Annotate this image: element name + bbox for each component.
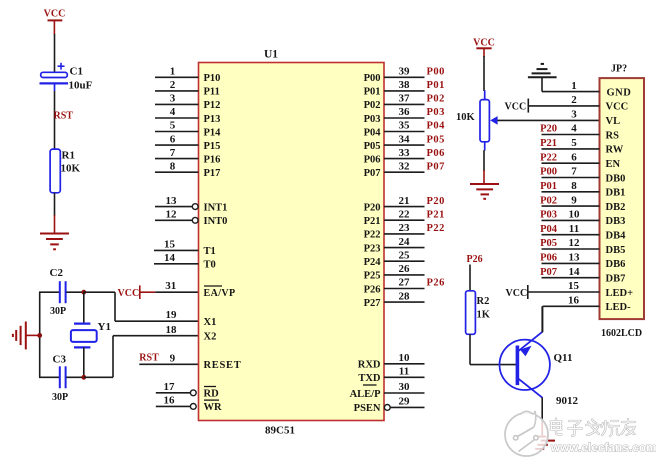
svg-text:EN: EN <box>606 159 621 170</box>
LCD pin 11 (DB4) with net label P04 <box>540 223 626 242</box>
LCD pin 13 (DB6) with net label P06 <box>540 252 625 271</box>
svg-text:89C51: 89C51 <box>265 425 295 437</box>
junction node XTAL2 <box>81 375 86 380</box>
svg-text:P26: P26 <box>467 254 483 265</box>
svg-text:Y1: Y1 <box>98 321 111 333</box>
svg-text:30P: 30P <box>52 392 68 403</box>
svg-text:10K: 10K <box>61 163 81 175</box>
svg-text:P07: P07 <box>427 161 445 172</box>
svg-text:X2: X2 <box>204 332 217 343</box>
U1 pin 31 (EA/VP) number and name <box>165 280 235 299</box>
watermark chinese text <box>551 419 636 437</box>
watermark logo circle <box>505 411 548 456</box>
LCD pin 16 (LED-) <box>543 295 631 314</box>
svg-text:P20: P20 <box>427 196 445 207</box>
wire Q11 collector to ground <box>541 397 543 436</box>
wire RST to U1 pin 9 <box>139 363 198 365</box>
svg-text:DB5: DB5 <box>606 245 626 256</box>
wire pot wiper to LCD pin 3 VL <box>497 119 599 121</box>
svg-text:4: 4 <box>571 123 577 135</box>
IC U1 89C51 body <box>199 49 385 437</box>
svg-text:P11: P11 <box>204 87 220 98</box>
U1 pin 36 (P03) with net label P03 <box>364 106 445 125</box>
svg-text:5: 5 <box>170 120 176 132</box>
svg-text:VL: VL <box>606 116 621 127</box>
svg-text:RD: RD <box>204 389 220 400</box>
svg-text:VCC: VCC <box>44 9 66 20</box>
power symbol VCC (contrast pot) <box>473 38 495 58</box>
svg-text:1: 1 <box>571 80 577 92</box>
svg-text:5: 5 <box>571 137 577 149</box>
junction node XTAL1 <box>81 290 86 295</box>
svg-text:30P: 30P <box>50 306 66 317</box>
LCD pin 10 (DB3) with net label P03 <box>540 209 625 228</box>
svg-text:ALE/P: ALE/P <box>350 389 382 400</box>
svg-text:11: 11 <box>569 223 579 235</box>
U1 pin 19 (X1) number and name <box>166 309 217 328</box>
svg-text:14: 14 <box>164 252 176 264</box>
svg-text:DB1: DB1 <box>606 188 626 199</box>
svg-text:P10: P10 <box>204 73 221 84</box>
svg-text:P06: P06 <box>364 154 381 165</box>
svg-text:10: 10 <box>569 209 581 221</box>
U1 pin 22 (P21) with net label P21 <box>364 208 445 227</box>
U1 pin 13 (INT1) with inverting bubble <box>155 195 227 214</box>
U1 pin 32 (P07) with net label P07 <box>364 160 445 179</box>
svg-text:VCC: VCC <box>473 38 495 49</box>
svg-text:P04: P04 <box>540 224 558 235</box>
wire left rail (C2/C3 ground side) <box>39 292 41 377</box>
svg-text:14: 14 <box>569 266 581 278</box>
U1 pin 1 (P10) <box>155 66 220 85</box>
svg-text:DB2: DB2 <box>606 202 626 213</box>
svg-text:P07: P07 <box>540 267 557 278</box>
LCD pin 14 (DB7) with net label P07 <box>540 266 625 285</box>
LCD pin 8 (DB1) with net label P01 <box>540 180 625 199</box>
svg-text:P17: P17 <box>204 168 221 179</box>
U1 pin 27 (P26) with net label P26 <box>364 277 445 296</box>
svg-text:30: 30 <box>399 381 411 393</box>
svg-text:4: 4 <box>170 106 176 118</box>
U1 pin 26 (P25) <box>364 263 425 282</box>
U1 pin 37 (P02) with net label P02 <box>364 93 445 112</box>
net label VCC at U1 pin 31 (EA/VP) <box>118 285 156 299</box>
wire VCC label to U1 pin 31 <box>155 291 198 293</box>
resistor R1 10K <box>50 149 80 193</box>
svg-text:DB6: DB6 <box>606 259 626 270</box>
svg-text:P01: P01 <box>427 80 445 91</box>
svg-text:P12: P12 <box>204 100 221 111</box>
svg-text:9012: 9012 <box>556 395 579 407</box>
svg-text:P21: P21 <box>364 216 381 227</box>
svg-text:X1: X1 <box>204 317 217 328</box>
svg-text:P02: P02 <box>364 100 381 111</box>
svg-text:26: 26 <box>399 263 411 275</box>
svg-text:RXD: RXD <box>358 360 381 371</box>
svg-text:LED-: LED- <box>606 302 632 313</box>
svg-text:DB0: DB0 <box>606 173 626 184</box>
svg-text:34: 34 <box>399 133 411 145</box>
svg-text:RS: RS <box>606 130 620 141</box>
svg-text:3: 3 <box>170 93 176 105</box>
wire Q11 emitter up to LED- net <box>541 306 543 332</box>
svg-text:3: 3 <box>571 108 577 120</box>
transistor Q11 9012 (PNP) <box>500 332 579 407</box>
svg-text:T1: T1 <box>204 246 216 257</box>
svg-text:17: 17 <box>164 381 176 393</box>
svg-text:35: 35 <box>399 120 411 132</box>
svg-text:P24: P24 <box>364 257 382 268</box>
resistor R2 1K <box>466 291 491 335</box>
svg-text:8: 8 <box>170 160 176 172</box>
svg-text:P21: P21 <box>540 138 557 149</box>
U1 pin 3 (P12) <box>155 93 220 112</box>
svg-text:10: 10 <box>399 352 411 364</box>
svg-text:P02: P02 <box>540 195 557 206</box>
crystal Y1 <box>71 292 111 377</box>
ground (earth) at LCD pin 1 <box>528 64 557 92</box>
U1 pin 16 (WR) with inverting bubble <box>156 395 222 414</box>
svg-text:P05: P05 <box>364 141 381 152</box>
svg-text:VCC: VCC <box>606 102 629 113</box>
U1 pin 7 (P16) <box>155 147 220 166</box>
svg-text:RST: RST <box>139 353 159 364</box>
svg-text:27: 27 <box>399 277 411 289</box>
svg-text:INT1: INT1 <box>204 202 228 213</box>
U1 pin 6 (P15) <box>155 133 220 152</box>
svg-text:DB3: DB3 <box>606 216 626 227</box>
svg-text:P23: P23 <box>364 243 381 254</box>
svg-text:PSEN: PSEN <box>354 403 381 414</box>
svg-text:32: 32 <box>399 160 411 172</box>
svg-text:6: 6 <box>170 133 176 145</box>
svg-text:19: 19 <box>166 309 178 321</box>
svg-text:P00: P00 <box>364 73 381 84</box>
svg-text:15: 15 <box>164 239 176 251</box>
svg-text:RST: RST <box>54 110 74 121</box>
wire XTAL2 to U1 pin 18 (X2) <box>84 336 199 378</box>
U1 pin 25 (P24) <box>364 249 425 268</box>
svg-text:16: 16 <box>568 295 580 307</box>
svg-text:31: 31 <box>165 280 176 292</box>
U1 pin 17 (RD) with inverting bubble <box>156 381 219 400</box>
svg-text:P14: P14 <box>204 127 222 138</box>
net label VCC at LCD pin 2 (black) <box>505 99 529 113</box>
U1 pin 5 (P14) <box>155 120 221 139</box>
net label VCC at LCD pin 15 (black) <box>506 285 528 299</box>
LCD pin 6 (EN) with net label P22 <box>540 151 620 170</box>
svg-text:C1: C1 <box>70 66 83 78</box>
U1 pin 12 (INT0) with inverting bubble <box>155 209 227 228</box>
svg-text:6: 6 <box>571 151 577 163</box>
svg-text:28: 28 <box>399 290 411 302</box>
svg-text:WR: WR <box>204 402 223 413</box>
U1 pin 9 (RESET) number and name <box>170 353 242 372</box>
LCD pin 7 (DB0) with net label P00 <box>540 166 625 185</box>
LCD pin 3 (VL) <box>571 108 620 127</box>
svg-text:P26: P26 <box>364 284 381 295</box>
svg-text:7: 7 <box>170 147 176 159</box>
svg-text:R2: R2 <box>477 296 490 307</box>
svg-text:VCC: VCC <box>505 102 527 113</box>
LCD pin 1 (GND) <box>542 80 631 99</box>
U1 pin 29 (PSEN) with inverting bubble <box>354 396 425 415</box>
svg-text:P04: P04 <box>364 127 382 138</box>
svg-text:DB4: DB4 <box>606 231 627 242</box>
U1 pin 14 (T0) <box>154 252 216 271</box>
svg-text:29: 29 <box>399 396 411 408</box>
junction node crystal ground tap <box>37 333 42 338</box>
svg-text:12: 12 <box>166 209 178 221</box>
U1 pin 24 (P23) <box>364 236 425 255</box>
svg-text:P13: P13 <box>204 114 221 125</box>
ground (earth) below pot <box>470 184 499 199</box>
U1 pin 34 (P05) with net label P05 <box>364 133 445 152</box>
svg-text:VCC: VCC <box>506 288 528 299</box>
svg-text:P01: P01 <box>540 181 557 192</box>
svg-text:R1: R1 <box>62 150 75 162</box>
capacitor C3 30P <box>39 354 84 404</box>
U1 pin 2 (P11) <box>155 79 220 98</box>
ground (earth) reset circuit <box>40 234 69 250</box>
wire VCC to C1 <box>54 34 56 73</box>
svg-text:39: 39 <box>399 66 411 78</box>
svg-text:T0: T0 <box>204 260 216 271</box>
LCD pin 9 (DB2) with net label P02 <box>540 194 625 213</box>
svg-text:GND: GND <box>607 87 632 98</box>
U1 pin 4 (P13) <box>155 106 220 125</box>
LCD pin 5 (RW) with net label P21 <box>540 137 624 156</box>
svg-text:P22: P22 <box>427 223 445 234</box>
svg-text:2: 2 <box>170 79 176 91</box>
svg-text:DB7: DB7 <box>606 274 626 285</box>
wire C1 to R1 <box>54 91 56 149</box>
wire P26 to R2 <box>469 265 471 292</box>
U1 pin 8 (P17) <box>155 160 220 179</box>
svg-text:7: 7 <box>571 166 577 178</box>
svg-text:24: 24 <box>399 236 411 248</box>
svg-text:www.elecfans.com: www.elecfans.com <box>550 443 656 455</box>
svg-text:37: 37 <box>399 93 411 105</box>
svg-text:RW: RW <box>606 145 624 156</box>
svg-text:P05: P05 <box>427 134 445 145</box>
svg-text:P25: P25 <box>364 271 381 282</box>
svg-text:15: 15 <box>568 280 580 292</box>
svg-text:INT0: INT0 <box>204 216 228 227</box>
svg-text:P15: P15 <box>204 141 221 152</box>
svg-text:25: 25 <box>399 249 411 261</box>
svg-text:1: 1 <box>170 66 176 78</box>
U1 pin 18 (X2) number and name <box>166 324 217 343</box>
svg-text:13: 13 <box>166 195 178 207</box>
wire pot to ground <box>483 150 485 184</box>
U1 pin 38 (P01) with net label P01 <box>364 79 445 98</box>
U1 pin 11 (TXD) <box>358 366 424 385</box>
svg-text:P03: P03 <box>427 107 445 118</box>
U1 pin 15 (T1) <box>154 239 216 258</box>
svg-text:10K: 10K <box>456 112 476 123</box>
svg-text:21: 21 <box>399 195 410 207</box>
wire XTAL1 to U1 pin 19 (X1) <box>84 292 199 321</box>
svg-text:P06: P06 <box>540 253 557 264</box>
svg-text:1602LCD: 1602LCD <box>601 328 642 339</box>
svg-text:P26: P26 <box>427 278 445 289</box>
svg-text:P07: P07 <box>364 168 381 179</box>
capacitor C2 30P <box>39 267 84 317</box>
svg-text:38: 38 <box>399 79 411 91</box>
svg-text:U1: U1 <box>264 49 278 61</box>
svg-text:P22: P22 <box>540 152 557 163</box>
svg-text:9: 9 <box>170 353 176 365</box>
U1 pin 35 (P04) with net label P04 <box>364 120 446 139</box>
svg-text:P03: P03 <box>540 210 557 221</box>
svg-text:12: 12 <box>569 237 581 249</box>
svg-text:P04: P04 <box>427 121 446 132</box>
LCD pin 4 (RS) with net label P20 <box>540 123 619 142</box>
wire R1 to ground <box>54 193 56 234</box>
svg-text:P00: P00 <box>540 167 557 178</box>
svg-text:P20: P20 <box>364 202 381 213</box>
svg-text:RESET: RESET <box>204 360 242 371</box>
svg-text:TXD: TXD <box>358 373 381 384</box>
U1 pin 30 (ALE/P) <box>350 381 425 400</box>
U1 pin 28 (P27) <box>364 290 425 309</box>
svg-text:P02: P02 <box>427 94 445 105</box>
svg-text:P27: P27 <box>364 298 381 309</box>
svg-text:EA/VP: EA/VP <box>204 288 236 299</box>
wire LCD pin 16 to Q11 emitter <box>542 306 544 332</box>
svg-text:2: 2 <box>571 94 577 106</box>
svg-text:18: 18 <box>166 324 178 336</box>
svg-text:11: 11 <box>399 366 409 378</box>
svg-text:10uF: 10uF <box>69 80 93 92</box>
svg-text:P20: P20 <box>540 124 557 135</box>
svg-text:P22: P22 <box>364 230 381 241</box>
svg-text:P00: P00 <box>427 67 445 78</box>
svg-text:9: 9 <box>571 194 577 206</box>
connector JP? 1602 LCD body <box>600 64 645 340</box>
svg-text:1K: 1K <box>477 310 491 321</box>
wire VCC to potentiometer <box>483 56 485 91</box>
svg-text:22: 22 <box>399 208 411 220</box>
svg-text:P16: P16 <box>204 154 221 165</box>
svg-text:C3: C3 <box>53 354 67 366</box>
power ground (crystal capacitors) <box>13 322 40 350</box>
svg-text:P21: P21 <box>427 209 445 220</box>
svg-text:P05: P05 <box>540 238 557 249</box>
LCD pin 2 (VCC) <box>528 94 628 113</box>
svg-text:C2: C2 <box>50 267 64 279</box>
svg-text:33: 33 <box>399 147 411 159</box>
capacitor C1 10uF (polarized) <box>40 63 93 92</box>
svg-text:36: 36 <box>399 106 411 118</box>
potentiometer R? 10K <box>456 90 498 150</box>
svg-text:23: 23 <box>399 222 411 234</box>
svg-text:13: 13 <box>569 252 581 264</box>
LCD pin 12 (DB5) with net label P05 <box>540 237 625 256</box>
svg-text:JP?: JP? <box>611 64 627 75</box>
U1 pin 33 (P06) with net label P06 <box>364 147 445 166</box>
U1 pin 21 (P20) with net label P20 <box>364 195 445 214</box>
svg-text:LED+: LED+ <box>606 288 634 299</box>
svg-text:P01: P01 <box>364 87 381 98</box>
svg-text:P06: P06 <box>427 148 445 159</box>
U1 pin 23 (P22) with net label P22 <box>364 222 445 241</box>
svg-text:VCC: VCC <box>118 288 140 299</box>
power symbol VCC (reset circuit) <box>44 9 66 35</box>
U1 pin 39 (P00) with net label P00 <box>364 66 445 85</box>
wire R2 to Q11 base <box>470 334 517 364</box>
LCD pin 15 (LED+) <box>528 280 633 299</box>
U1 pin 10 (RXD) <box>358 352 425 371</box>
svg-text:8: 8 <box>571 180 577 192</box>
svg-text:P03: P03 <box>364 114 381 125</box>
svg-text:16: 16 <box>164 395 176 407</box>
svg-text:Q11: Q11 <box>554 352 573 364</box>
ground (hatched) at Q11 collector <box>535 437 555 449</box>
